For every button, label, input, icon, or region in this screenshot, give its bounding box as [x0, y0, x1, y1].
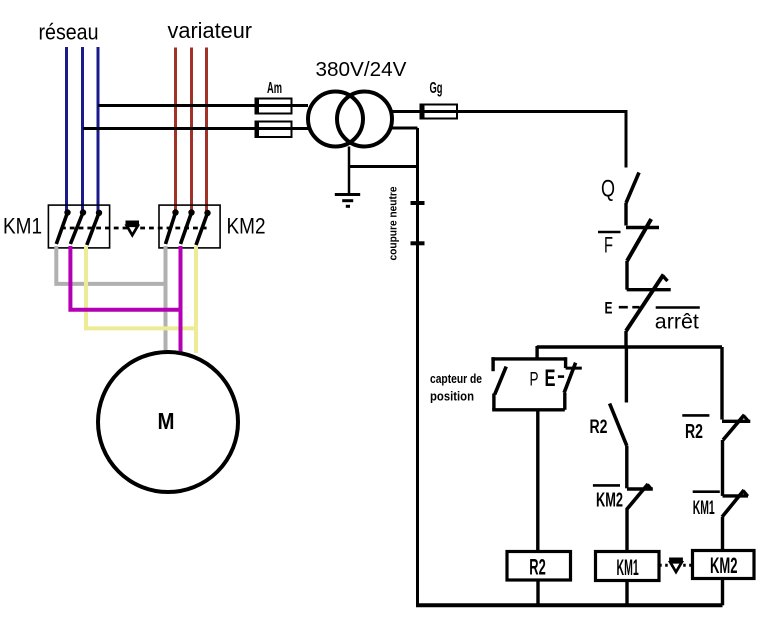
- svg-text:capteur de: capteur de: [430, 371, 482, 386]
- svg-text:M: M: [158, 408, 175, 434]
- svg-text:variateur: variateur: [168, 18, 253, 43]
- svg-text:position: position: [430, 389, 474, 404]
- svg-text:R2: R2: [685, 421, 703, 443]
- svg-text:F: F: [604, 233, 613, 258]
- svg-text:P: P: [530, 370, 539, 391]
- svg-text:R2: R2: [529, 554, 546, 579]
- svg-text:arrêt: arrêt: [655, 311, 699, 334]
- svg-text:Gg: Gg: [430, 80, 443, 97]
- svg-text:380V/24V: 380V/24V: [316, 59, 408, 81]
- svg-text:Q: Q: [601, 176, 615, 203]
- svg-text:KM2: KM2: [710, 553, 738, 578]
- svg-text:KM1: KM1: [617, 555, 639, 580]
- svg-text:KM1: KM1: [693, 498, 715, 519]
- svg-text:réseau: réseau: [39, 20, 99, 45]
- svg-text:E: E: [605, 299, 613, 318]
- svg-text:KM2: KM2: [596, 490, 623, 512]
- svg-text:R2: R2: [590, 417, 608, 438]
- svg-text:KM2: KM2: [227, 214, 266, 239]
- svg-text:coupure neutre: coupure neutre: [388, 187, 400, 261]
- svg-text:KM1: KM1: [3, 214, 42, 239]
- svg-text:Am: Am: [267, 80, 282, 97]
- svg-text:E: E: [545, 365, 556, 392]
